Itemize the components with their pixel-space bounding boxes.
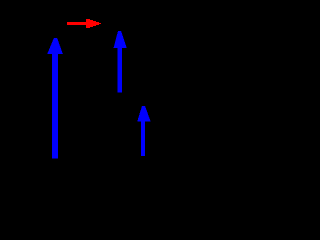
- red vector arrow top (right): [67, 19, 101, 28]
- blue vector arrow left (tall, up): [47, 38, 63, 158]
- blue vector arrow right (short, up): [137, 106, 151, 156]
- blue vector arrow middle (up): [114, 31, 127, 93]
